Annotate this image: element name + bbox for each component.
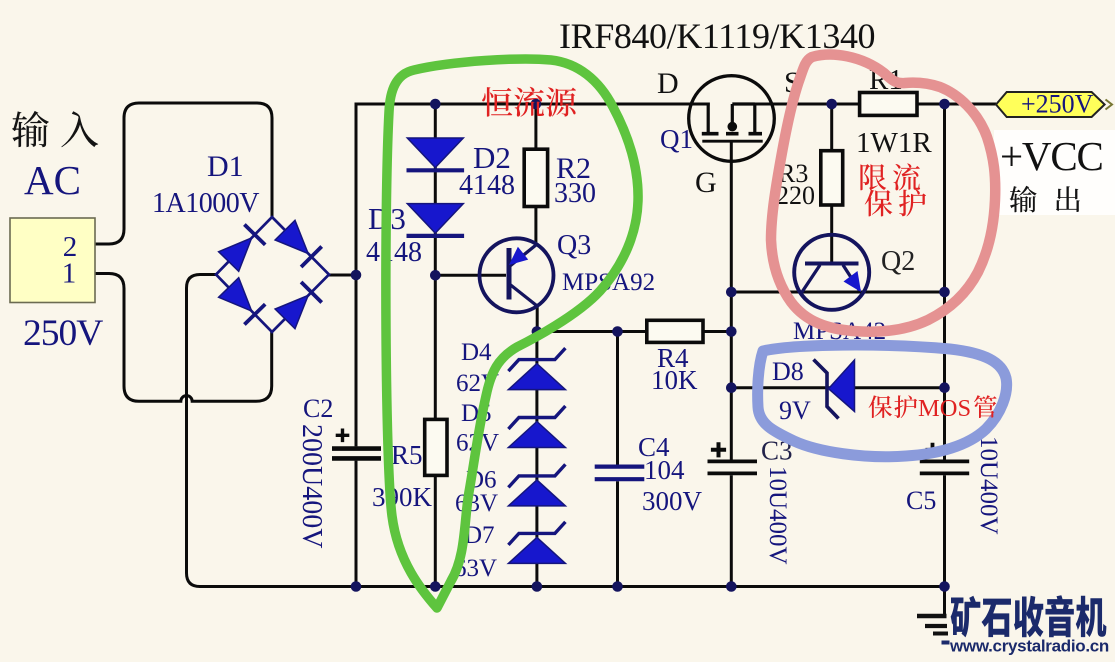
wire AC pin1 to bridge bottom (hop over crossing) (95, 274, 272, 402)
resistor R2 (524, 149, 547, 206)
resistor R4 (647, 320, 703, 342)
svg-text:G: G (695, 166, 717, 199)
svg-text:1: 1 (62, 258, 77, 290)
svg-text:R5: R5 (391, 440, 423, 470)
capacitor C3 plates (708, 459, 758, 463)
watermark logo 矿石收音机 (951, 595, 1107, 637)
label 输入 (12, 111, 98, 147)
node junction 18 (726, 581, 737, 592)
red text 恒流源 (482, 87, 576, 117)
C5 polarity + (926, 443, 940, 457)
AC input connector box (10, 218, 95, 303)
wire R3 to Q2 base (830, 205, 833, 263)
svg-text:Q2: Q2 (881, 246, 915, 277)
diode D2 (407, 138, 463, 168)
svg-text:1W1R: 1W1R (856, 127, 932, 159)
wire zener chain (535, 332, 538, 587)
svg-text:Q1: Q1 (660, 124, 693, 154)
wire R3 top lead (830, 104, 833, 151)
annotation loop pink (current limit protection) (771, 55, 995, 332)
node junction 17 (612, 581, 623, 592)
svg-text:10K: 10K (651, 365, 698, 395)
capacitor C4 plates (595, 465, 645, 469)
annotation loop blue (protect MOSFET) (758, 345, 1007, 457)
resistor R3 (821, 151, 843, 205)
wire C4 branch top (616, 332, 619, 465)
svg-text:D1: D1 (207, 150, 244, 183)
red text 限流 (860, 163, 920, 190)
wire gate rail (730, 142, 733, 460)
zener D4 (508, 348, 565, 371)
node junction 2 (531, 99, 542, 110)
label 输出 (1010, 186, 1080, 213)
wire C4 branch bottom (616, 481, 619, 586)
output port +250V hexagon (996, 92, 1105, 117)
svg-text:10U400V: 10U400V (764, 466, 791, 565)
node junction 8 (612, 326, 623, 337)
svg-text:390K: 390K (372, 482, 433, 512)
capacitor C2 plates (332, 446, 381, 451)
wire AC pin2 to bridge top (95, 103, 273, 244)
bridge rectifier D1 diamond (216, 217, 329, 332)
wire D8 row (730, 386, 945, 389)
node junction 14 (351, 581, 362, 592)
svg-text:+VCC: +VCC (1000, 133, 1103, 179)
red text 保护 (865, 189, 926, 216)
wire top rail D line (355, 103, 710, 106)
wire ground stub (943, 587, 946, 617)
zener D7 (508, 522, 565, 545)
svg-text:D4: D4 (461, 339, 492, 366)
wire R2 top lead (534, 104, 537, 149)
node junction 16 (532, 581, 543, 592)
red text 保护MOS管 (869, 395, 997, 422)
svg-text:C2: C2 (303, 394, 333, 423)
svg-text:9V: 9V (779, 396, 811, 425)
node junction 11 (939, 287, 950, 298)
svg-text:10U400V: 10U400V (975, 436, 1002, 535)
watermark ground symbol (917, 614, 947, 618)
transistor Q2 MPSA42 (794, 235, 869, 310)
C3 polarity + (711, 442, 726, 457)
node junction 12 (726, 382, 737, 393)
transistor Q3 MPSA92 (480, 238, 554, 312)
label +VCC white backing (994, 130, 1115, 215)
wire right rail below C5 (943, 475, 946, 586)
svg-text:250V: 250V (23, 313, 103, 354)
bridge diode bottom-left (219, 278, 252, 311)
svg-text:D8: D8 (772, 357, 804, 386)
svg-text:D: D (657, 67, 679, 100)
bridge diode top-left (219, 238, 252, 271)
node junction 1 (430, 99, 441, 110)
wire R5 to ground rail (434, 475, 437, 586)
node junction 15 (430, 581, 441, 592)
svg-text:1A1000V: 1A1000V (152, 188, 259, 219)
svg-text:220: 220 (776, 181, 815, 210)
bridge diode bottom-right (275, 295, 308, 328)
svg-text:www.crystalradio.cn: www.crystalradio.cn (949, 637, 1109, 656)
bridge diode top-right (275, 220, 308, 253)
svg-text:MOS: MOS (918, 395, 971, 422)
svg-text:4148: 4148 (459, 170, 515, 201)
svg-text:63V: 63V (455, 490, 498, 517)
wire below C3 (730, 475, 733, 586)
svg-text:330: 330 (554, 178, 596, 209)
node junction 5 (351, 270, 362, 281)
wire top rail S line (753, 103, 996, 106)
node junction 19 (939, 581, 950, 592)
resistor R5 (425, 419, 447, 475)
wire D2 D3 branch (434, 104, 437, 276)
node junction 13 (939, 382, 950, 393)
node junction 4 (939, 99, 950, 110)
node junction 9 (726, 326, 737, 337)
svg-text:+250V: +250V (1021, 90, 1094, 119)
node junction 7 (532, 326, 543, 337)
wire D3 node to R5 (434, 275, 437, 419)
wire Q3 collector lead (536, 305, 539, 334)
diode D3 (407, 204, 463, 234)
svg-text:104: 104 (644, 455, 685, 485)
wire left rail top (node A to C2+) (355, 275, 358, 446)
wire left rail below C2 (355, 461, 358, 587)
zener D6 (508, 464, 565, 487)
node junction 3 (826, 99, 837, 110)
svg-text:Q3: Q3 (557, 230, 591, 261)
annotation loop green (constant current source) (386, 59, 638, 608)
wire Q2 emitter row (730, 291, 945, 294)
resistor R1 (860, 93, 917, 116)
zener D8 (814, 360, 839, 419)
svg-text:300V: 300V (642, 486, 703, 516)
zener D5 (508, 406, 565, 429)
svg-text:200U400V: 200U400V (296, 424, 327, 548)
C2 polarity + (336, 429, 350, 443)
svg-text:C5: C5 (906, 486, 936, 515)
wire right rail (943, 104, 946, 460)
capacitor C5 plates (920, 459, 969, 463)
svg-text:4148: 4148 (366, 237, 422, 268)
svg-text:AC: AC (24, 157, 81, 203)
node junction 6 (430, 270, 441, 281)
wire R2 to Q3 emitter (534, 207, 537, 245)
node junction 10 (726, 287, 737, 298)
wire R4 to gate rail (703, 330, 731, 333)
wire Q3/zener node to R4 (537, 330, 647, 333)
wire Q3 base (435, 274, 506, 277)
MOSFET Q1 IRF840 (689, 76, 775, 162)
wire bridge plus to node A (329, 274, 358, 277)
wire bridge minus to ground rail (187, 275, 945, 587)
